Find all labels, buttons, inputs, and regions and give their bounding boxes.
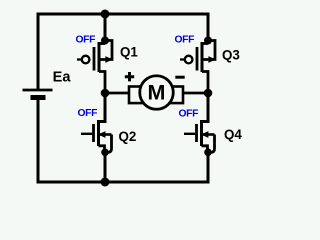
- svg-text:Ea: Ea: [53, 69, 72, 85]
- svg-text:OFF: OFF: [76, 35, 96, 46]
- svg-text:Q3: Q3: [222, 48, 240, 63]
- svg-text:Q4: Q4: [224, 127, 242, 142]
- svg-text:OFF: OFF: [175, 35, 195, 46]
- svg-text:Q1: Q1: [120, 45, 138, 60]
- svg-text:OFF: OFF: [179, 109, 199, 120]
- svg-text:M: M: [148, 81, 166, 105]
- svg-text:Q2: Q2: [119, 129, 137, 144]
- svg-text:OFF: OFF: [78, 108, 98, 119]
